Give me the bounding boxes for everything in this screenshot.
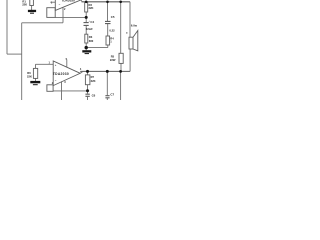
speaker Gr1 frame [129, 37, 133, 49]
svg-text:C6: C6 [92, 94, 96, 98]
wire h1 bottom of v1 [7, 53, 22, 55]
wire top output rail [82, 1, 131, 3]
resistor R5 22 [119, 53, 123, 63]
ground R6 [30, 81, 40, 83]
wire R5 node down to edge [120, 71, 122, 100]
svg-text:22mF: 22mF [86, 27, 93, 31]
ground R3 [82, 50, 91, 52]
svg-text:22K: 22K [22, 2, 27, 6]
wire C4 top lead [85, 17, 87, 22]
svg-text:2: 2 [64, 8, 66, 11]
resistor R4 [106, 36, 110, 45]
wire R7 top lead [87, 71, 89, 75]
op-amp U1 TDA2030 (top, cut off) [55, 0, 81, 10]
wire h2 feedback to inverting input U1 [22, 22, 63, 24]
svg-text:R7: R7 [91, 75, 95, 79]
wire U1 output stub [81, 0, 82, 2]
wire R2 bottom lead [85, 12, 87, 17]
wire C7 top lead [106, 71, 108, 95]
wire C5 top lead [107, 2, 109, 21]
wire bottom output rail [80, 70, 130, 72]
svg-text:TDA2030: TDA2030 [53, 72, 69, 76]
capacitor C6 plates [85, 94, 89, 96]
node dot R5 top [119, 1, 122, 4]
svg-text:+: + [55, 63, 57, 67]
box U2 input network [47, 85, 53, 92]
svg-text:22W: 22W [110, 58, 116, 62]
svg-text:C4: C4 [90, 20, 94, 24]
wire R3 ground lead [85, 48, 87, 51]
wire R6 bottom lead [35, 78, 37, 81]
wire R5 bottom lead [120, 63, 122, 71]
svg-text:5: 5 [66, 58, 68, 61]
svg-text:TDA2030: TDA2030 [62, 0, 76, 2]
ground R1 [28, 10, 36, 12]
wire h3 box to node A [55, 16, 86, 18]
node dot C5 top [106, 1, 109, 4]
svg-text:22K: 22K [27, 75, 32, 79]
wire R4 bottom lead [107, 45, 109, 48]
wire R7 bottom lead [87, 85, 89, 94]
svg-text:3: 3 [64, 81, 66, 84]
wire R3 bottom lead [85, 43, 87, 48]
svg-text:22K: 22K [89, 6, 94, 10]
wire U2 power pin 5 stub [66, 60, 68, 68]
svg-text:R6: R6 [27, 71, 31, 75]
svg-text:6.0w: 6.0w [131, 23, 138, 27]
node dot R5 bottom [119, 70, 122, 73]
wire R2 top lead [85, 1, 87, 4]
resistor R1 22K [30, 0, 34, 6]
wire R6 top lead [35, 64, 37, 68]
capacitor C7 plates [105, 96, 109, 98]
wire U1 inverting pin stub [62, 7, 64, 22]
svg-text:R3: R3 [89, 35, 93, 39]
wire left input rail v1 [6, 0, 8, 54]
node dot A feedback [85, 16, 88, 19]
svg-text:680: 680 [89, 39, 94, 43]
resistor R2 22K [85, 2, 88, 12]
box U1 input network [47, 8, 55, 18]
wire speaker top feed [129, 2, 131, 37]
speck near speaker terminal [126, 32, 127, 33]
wire C5 to R4 lead [107, 24, 109, 36]
capacitor C4 plates [84, 23, 89, 26]
wire C6 bottom lead [87, 97, 89, 100]
svg-text:−: − [59, 2, 61, 6]
wire R1 bottom lead [31, 6, 33, 11]
wire U1 non-inverting stub [50, 1, 55, 3]
wire R5 top feed [120, 2, 122, 54]
wire h5 U2 box to C6 [53, 90, 89, 92]
node dot R2 top [85, 1, 88, 4]
wire C4 to R3 lead [85, 26, 87, 34]
wire node line R3 R4 [86, 47, 108, 49]
svg-text:C7: C7 [110, 92, 114, 96]
svg-text:4: 4 [80, 68, 82, 71]
wire U2 output stub [80, 71, 83, 73]
speaker cone [133, 31, 138, 51]
resistor R7 22K [85, 75, 90, 85]
wire U2 input line [36, 63, 54, 65]
wire C7 bottom lead [106, 98, 108, 100]
node dot R7 top [86, 70, 89, 73]
op-amp U2 TDA2030 [53, 61, 80, 86]
svg-text:0.22: 0.22 [109, 28, 115, 32]
wire U2 inverting pin 3 stub down [61, 81, 63, 100]
node dot R3 R4 junction [85, 46, 88, 49]
svg-text:22K: 22K [91, 79, 96, 83]
capacitor C5 plates [105, 21, 111, 23]
resistor R6 22K [33, 68, 37, 78]
svg-text:R5: R5 [111, 54, 115, 58]
svg-text:C5: C5 [111, 15, 115, 19]
node dot R7 bottom [86, 89, 89, 92]
resistor R3 680 [85, 34, 88, 43]
svg-text:−: − [55, 79, 57, 83]
node dot C7 top [106, 70, 109, 73]
wire v2 long vertical [21, 23, 23, 100]
wire speaker bottom feed [129, 49, 131, 71]
